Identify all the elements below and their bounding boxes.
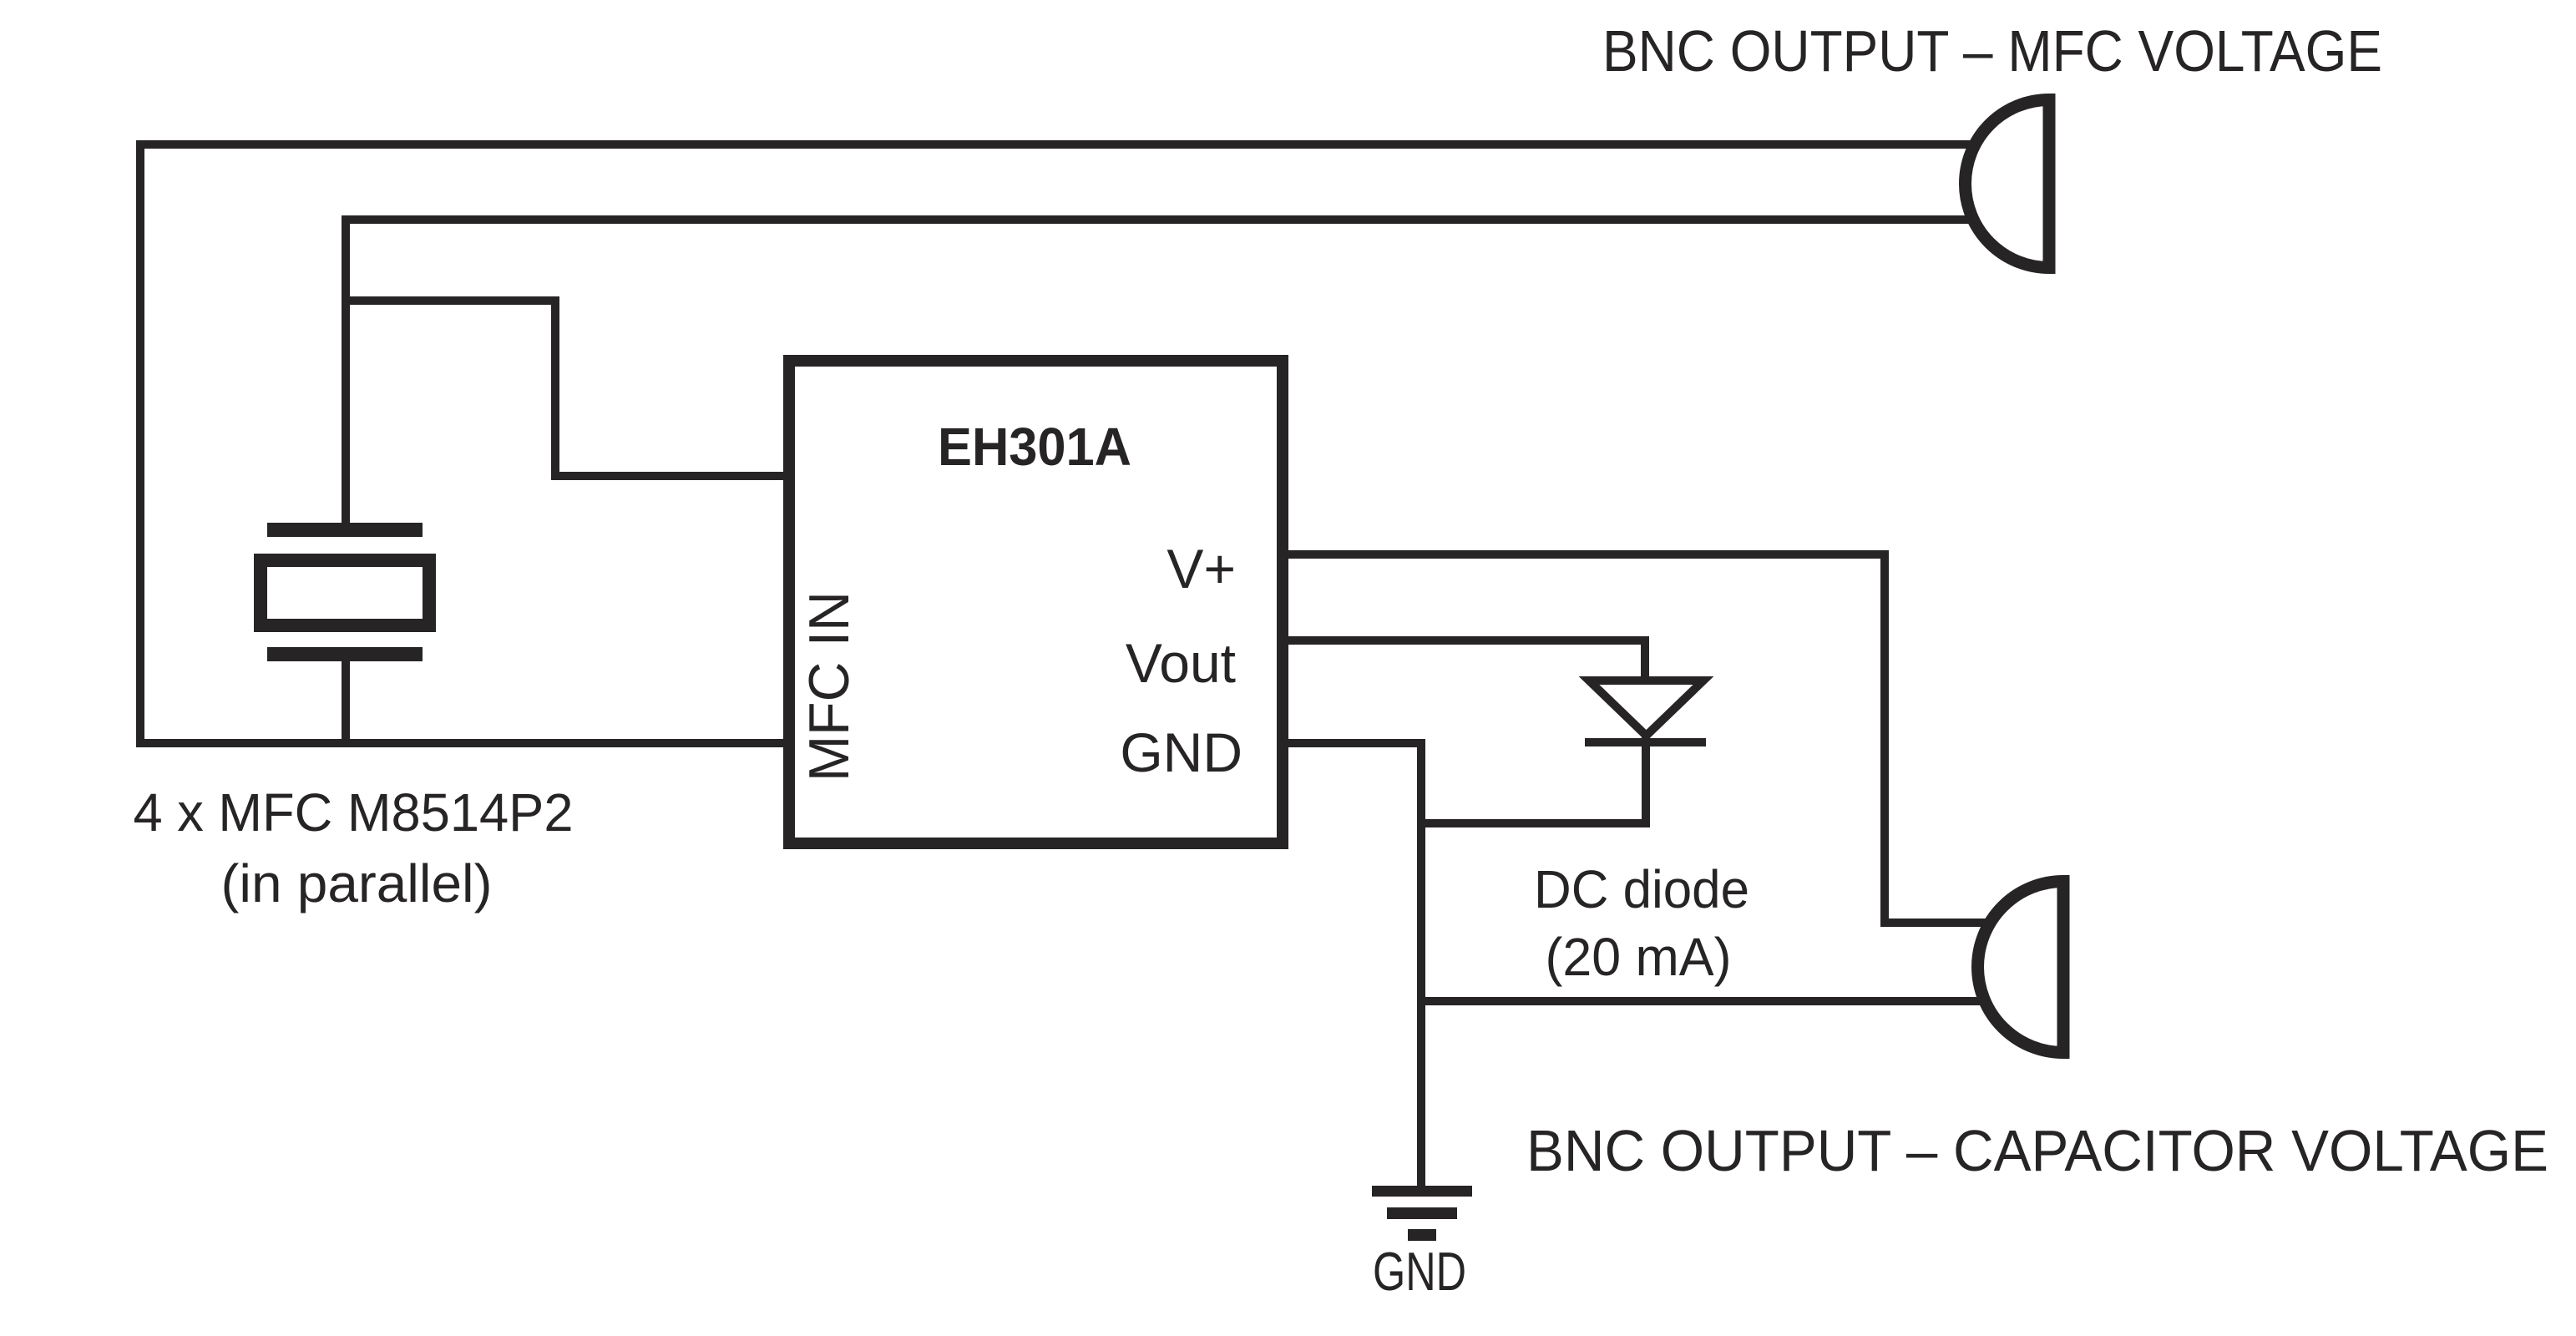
svg-text:V+: V+ — [1167, 538, 1236, 600]
svg-text:BNC OUTPUT – MFC VOLTAGE: BNC OUTPUT – MFC VOLTAGE — [1602, 18, 2382, 83]
svg-text:(in parallel): (in parallel) — [221, 853, 493, 913]
svg-text:MFC IN: MFC IN — [797, 591, 861, 782]
svg-text:Vout: Vout — [1126, 632, 1236, 694]
svg-text:BNC OUTPUT – CAPACITOR VOLTAGE: BNC OUTPUT – CAPACITOR VOLTAGE — [1526, 1118, 2548, 1183]
svg-text:4 x MFC M8514P2: 4 x MFC M8514P2 — [134, 782, 574, 843]
svg-text:GND: GND — [1373, 1241, 1466, 1302]
svg-text:(20 mA): (20 mA) — [1546, 927, 1732, 987]
svg-text:GND: GND — [1120, 721, 1242, 783]
svg-text:EH301A: EH301A — [938, 417, 1131, 477]
svg-text:DC diode: DC diode — [1534, 859, 1749, 919]
